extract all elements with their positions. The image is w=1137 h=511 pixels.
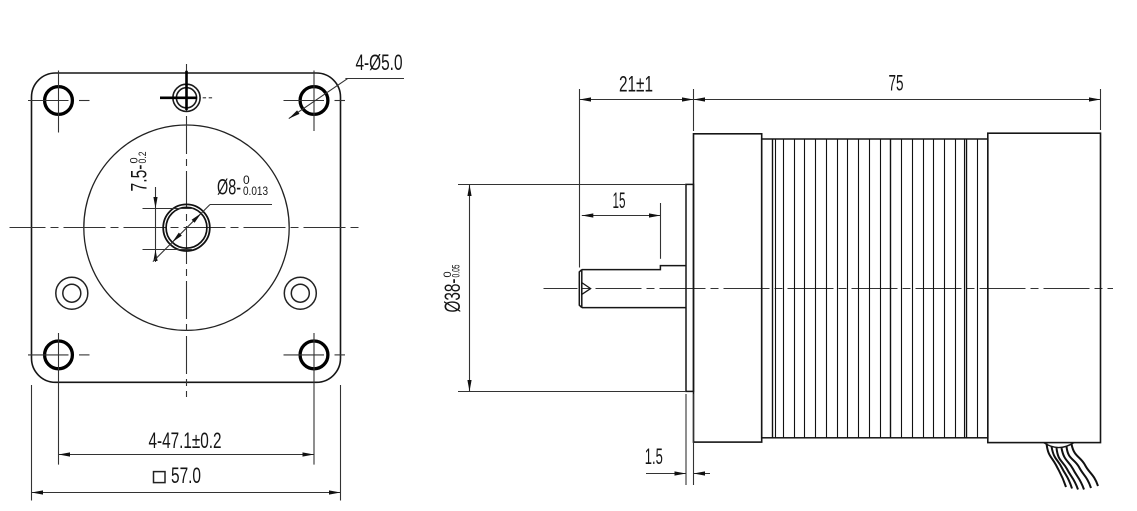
dimension 57.0 dimension line xyxy=(32,492,341,494)
center shaft hole Φ8 (double circle) xyxy=(163,204,210,251)
top-right hole horizontal centerline xyxy=(284,100,325,102)
top-right mounting hole (Φ5) xyxy=(300,87,328,115)
top-left hole vertical centerline xyxy=(58,71,60,133)
pilot boss plate (Φ38 x 1.5) xyxy=(686,184,694,391)
top-left hole horizontal centerline xyxy=(28,100,69,102)
top-center pilot hole (double circle) xyxy=(173,84,200,111)
stator lamination stack with fins xyxy=(762,139,988,438)
pilot boss circle (front face large circle) xyxy=(84,125,289,330)
dimension 75 extension line at rear face xyxy=(1100,89,1102,130)
dimension text Φ38-0.05 (rotated) xyxy=(440,265,465,313)
svg-text:4-47.1±0.2: 4-47.1±0.2 xyxy=(149,428,222,453)
shaft hole diameter leader line xyxy=(153,205,210,262)
svg-text:1.5: 1.5 xyxy=(645,444,663,469)
vertical centerline of front view xyxy=(186,64,188,397)
dimension 4-47.1 dimension line xyxy=(59,454,315,456)
bottom-right mounting hole (Φ5) xyxy=(300,341,328,369)
dimension 15 extension line xyxy=(660,203,662,259)
left lower counterbore hole (double circle) xyxy=(56,277,88,309)
shared extension line at motor front face xyxy=(693,89,695,131)
top-center hole bold crosshair xyxy=(185,71,188,110)
svg-text:7.5-: 7.5- xyxy=(127,165,152,192)
svg-text:0.2: 0.2 xyxy=(137,152,149,164)
dimension Φ38 dimension line xyxy=(469,185,471,392)
top-right hole vertical centerline xyxy=(313,71,315,132)
dimension 1.5 extension lines xyxy=(685,394,687,485)
svg-text:Ø8-: Ø8- xyxy=(217,175,241,200)
dimension 21±1 dimension line xyxy=(580,99,694,101)
svg-text:Ø38-: Ø38- xyxy=(440,279,465,313)
svg-text:4-Ø5.0: 4-Ø5.0 xyxy=(356,50,403,75)
svg-text:0.05: 0.05 xyxy=(451,265,463,278)
svg-text:75: 75 xyxy=(889,71,904,96)
bottom-left mounting hole (Φ5) xyxy=(45,341,73,369)
dimension 15 dimension line xyxy=(582,215,661,217)
bottom-right hole horizontal centerline xyxy=(284,354,325,356)
dimension 57.0 extension lines xyxy=(31,385,33,501)
shaft outline xyxy=(579,266,686,308)
right lower counterbore hole (double circle) xyxy=(284,277,316,309)
svg-text:57.0: 57.0 xyxy=(171,463,201,488)
top-left mounting hole (Φ5) xyxy=(45,87,73,115)
bottom-left hole horizontal centerline xyxy=(28,354,69,356)
center drill mark on shaft end xyxy=(582,283,591,295)
svg-text:15: 15 xyxy=(613,188,626,213)
dimension 1.5 dimension line xyxy=(646,473,686,475)
dimension text 7.5-0.2 (rotated) xyxy=(127,152,152,192)
front view mounting plate outline (57x57 square, rounded corners) xyxy=(32,73,341,382)
svg-text:21±1: 21±1 xyxy=(619,71,653,96)
dimension 7.5-0.2 extension lines xyxy=(143,208,194,210)
square symbol for 57.0 xyxy=(154,472,166,483)
wire exit grommet arc xyxy=(1044,443,1074,448)
dimension 4-47.1 extension lines (through bottom holes) xyxy=(58,333,60,465)
dimension Φ38 extension lines xyxy=(458,184,686,186)
dimension 21±1 extension line at shaft end xyxy=(579,89,581,268)
rear end bell housing xyxy=(988,133,1101,442)
front end bell housing xyxy=(694,134,762,442)
dimension 7.5-0.2 dimension line xyxy=(155,187,157,262)
lead wires bundle xyxy=(1047,444,1067,488)
dimension 75 dimension line xyxy=(694,99,1101,101)
corner hole callout leader line xyxy=(289,79,348,119)
horizontal centerline of front view xyxy=(10,227,364,229)
side view centerline xyxy=(544,288,1114,290)
svg-text:0.013: 0.013 xyxy=(243,184,268,198)
